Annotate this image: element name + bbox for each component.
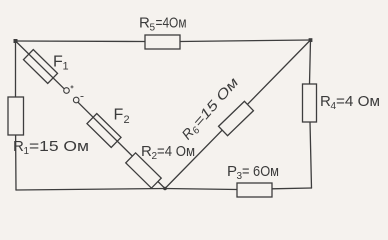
label R4 =4 Ом — [320, 93, 380, 112]
resistor R6 — [219, 101, 254, 135]
minus mark — [81, 96, 84, 98]
wire top-right segment — [180, 40, 311, 42]
terminal + — [64, 88, 70, 94]
svg-text:=15 Ом: =15 Ом — [29, 138, 89, 155]
wire top-left segment — [16, 40, 146, 43]
label R3= 6Ом — [227, 163, 279, 182]
terminal - — [73, 97, 79, 103]
node bottom junction — [163, 187, 167, 191]
wire diagonal left upper (through F1 to terminal) — [16, 41, 65, 89]
svg-text:=4Ом: =4Ом — [156, 15, 187, 32]
wire right top — [310, 40, 311, 84]
resistor R4 — [303, 84, 317, 122]
wire left bottom — [15, 135, 17, 190]
wire diagonal left lower (from terminal through F2, R2 to junction) — [78, 103, 165, 189]
label R6 =15 Ом (rotated along diagonal) — [178, 74, 243, 144]
resistor R2 — [126, 153, 161, 188]
plus mark — [71, 85, 74, 88]
svg-text:F: F — [53, 54, 63, 71]
wire diagonal right (junction to top-right node) — [165, 40, 311, 189]
svg-text:R: R — [141, 143, 152, 160]
wire bottom left — [16, 189, 165, 191]
fuse F1 — [23, 50, 57, 84]
label R2 =4 Ом — [141, 143, 195, 162]
label R5=4Ом — [139, 15, 187, 34]
wire right bottom — [310, 122, 312, 188]
node top-left — [14, 39, 18, 43]
node top-right — [309, 38, 313, 42]
wire bottom middle — [165, 189, 237, 190]
svg-text:R: R — [320, 93, 331, 110]
label F2 — [114, 107, 130, 127]
resistor R3 — [237, 183, 272, 197]
svg-text:=4 Ом: =4 Ом — [336, 93, 380, 110]
svg-text:1: 1 — [63, 61, 69, 73]
resistor R5 — [145, 35, 180, 49]
wire left top — [15, 41, 17, 97]
svg-text:= 6Ом: = 6Ом — [242, 163, 279, 180]
resistor R1 — [8, 97, 24, 135]
svg-text:R: R — [139, 15, 150, 32]
wire bottom right — [272, 187, 312, 190]
label F1 — [53, 54, 69, 73]
svg-text:R: R — [13, 138, 24, 155]
label R1 =15 Ом — [13, 138, 89, 157]
svg-text:2: 2 — [124, 114, 130, 126]
svg-text:=4 Ом: =4 Ом — [157, 143, 195, 160]
svg-text:P: P — [227, 163, 237, 180]
svg-text:F: F — [114, 107, 124, 124]
fuse F2 — [87, 114, 121, 148]
